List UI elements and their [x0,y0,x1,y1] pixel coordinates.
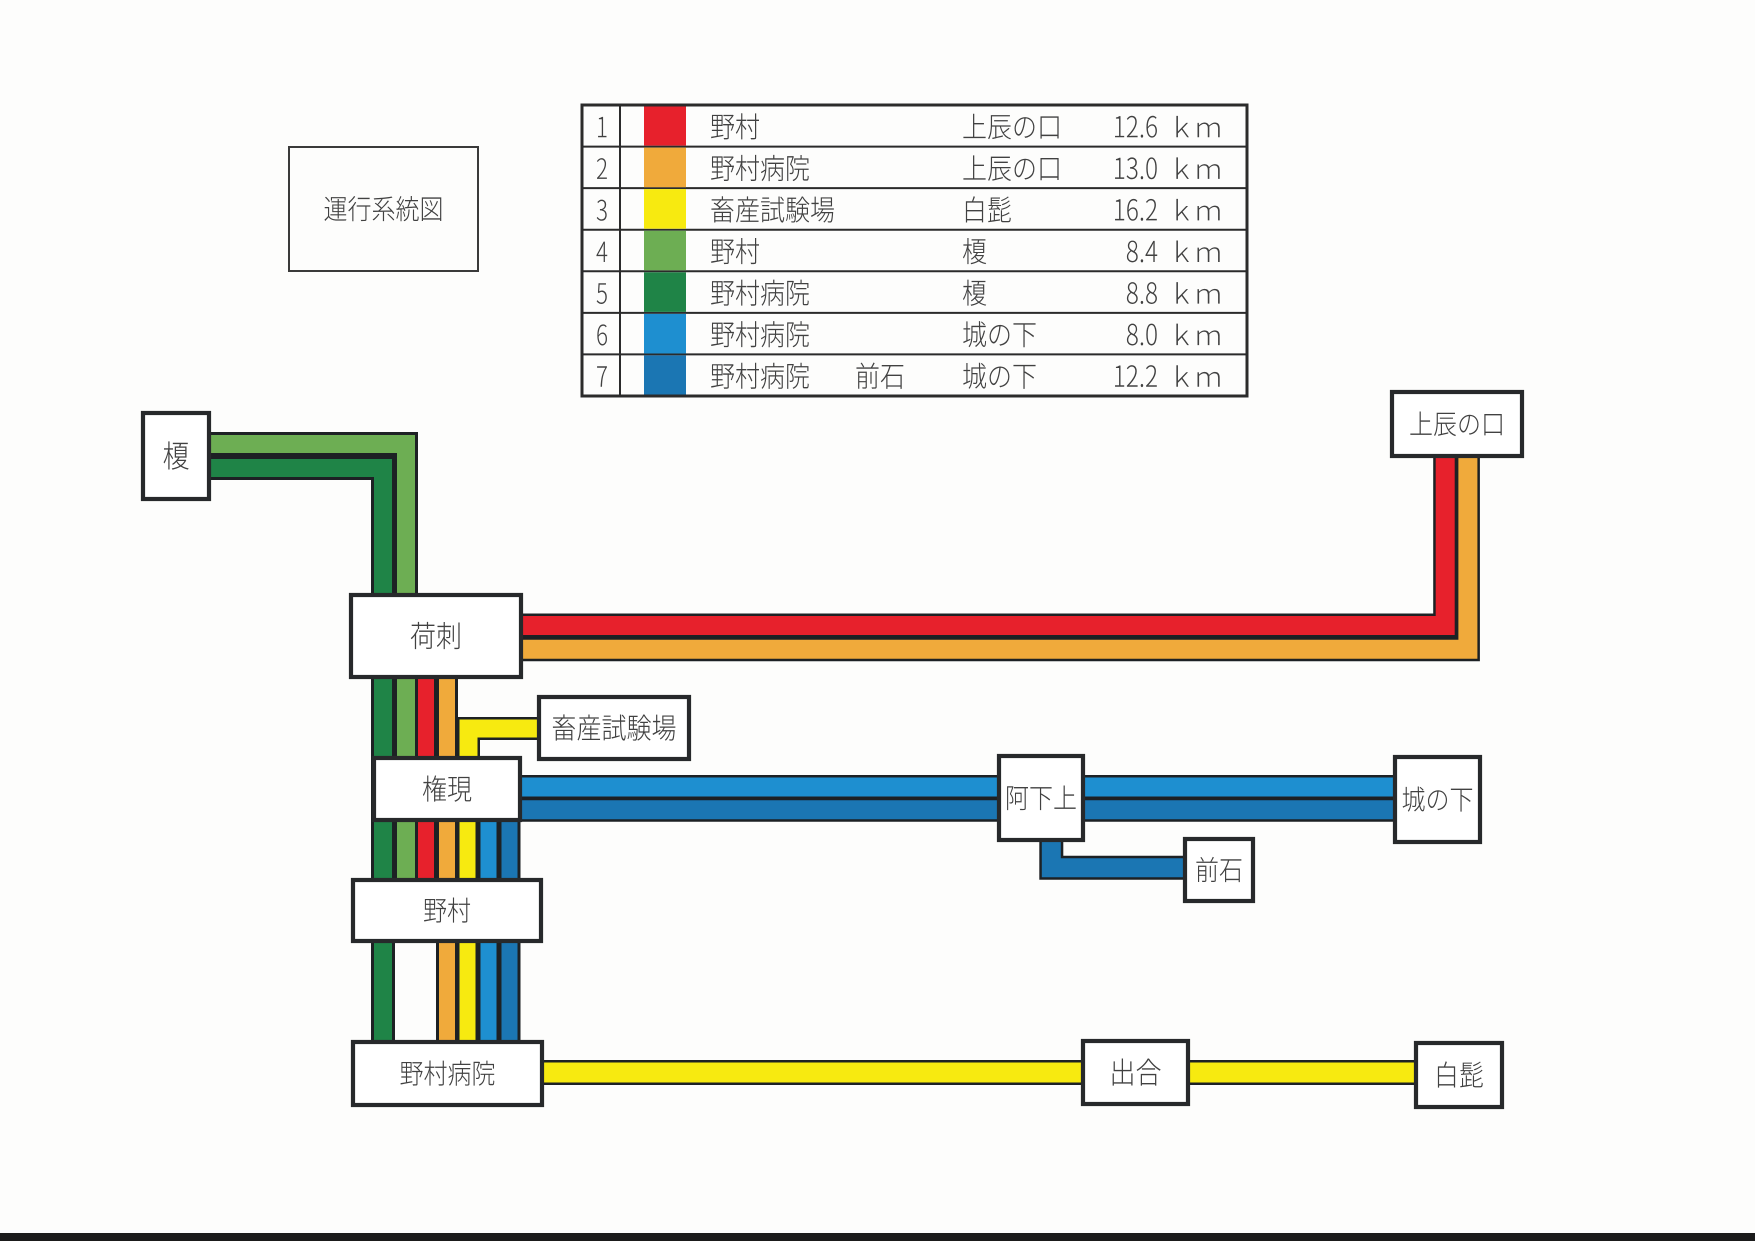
station box 野村病院 [353,1042,542,1105]
route 6 light-blue wire vertical 野村病院-権現 [481,795,497,1046]
station box 出合 [1083,1041,1188,1104]
route 6 light-blue wire 権現-阿下上-城の下 [517,778,1399,797]
legend row 4: colour swatch [644,231,686,271]
route 3 yellow wire 野村病院-出合-白髭 [540,1063,1420,1083]
legend row 3: texts [597,196,1220,222]
route 7 dark-blue wire vertical 野村病院-権現 [502,800,518,1046]
legend row 7: colour swatch [644,355,686,394]
legend row 1: colour swatch [644,107,686,146]
station box 畜産試験場 [539,697,689,759]
route 3 yellow wire 野村病院-出合-白髭 (outline) [540,1060,1420,1085]
legend row 6: colour swatch [644,314,686,354]
route 3 yellow wire vertical 権現-野村病院 (outline) [457,795,479,1046]
legend row 2: colour swatch [644,148,686,188]
route 1 red wire vertical 野村-荷刺 [418,660,434,884]
route 7 dark-blue wire 権現-阿下上-城の下 [517,800,1399,819]
legend row 7: texts [597,363,1220,389]
station box 榎 [143,413,209,499]
route 7 dark-blue wire vertical 野村病院-権現 (outline) [499,800,521,1046]
route 1 red wire 荷刺-上辰の口 [517,454,1445,626]
station box 前石 [1185,839,1253,901]
route 3 yellow wire 畜産試験場-権現 (outline) [469,729,541,791]
station box 上辰の口 [1392,392,1522,456]
station box 野村 [353,880,541,941]
route 6 light-blue wire 権現-阿下上-城の下 (outline) [517,775,1399,799]
route 1 red wire 荷刺-上辰の口 (outline) [517,454,1445,626]
station box 白髭 [1416,1043,1502,1107]
legend row 3: colour swatch [644,189,686,229]
route 2 orange wire vertical 野村病院-荷刺 (outline) [436,660,458,1046]
station box 阿下上 [999,756,1083,840]
title box 運行系統図 [289,147,478,271]
legend row 4: texts [596,238,1219,264]
route 3 yellow wire vertical 権現-野村病院 [460,795,476,1046]
route 4 light-green wire 榎-荷刺-野村 (outline) [205,444,406,884]
route 2 orange wire 荷刺-上辰の口 [517,454,1468,649]
legend row 5: colour swatch [644,272,686,312]
station box 荷刺 [351,595,521,677]
route 2 orange wire 荷刺-上辰の口 (outline) [517,454,1468,649]
legend table frame [582,105,1247,396]
legend row 2: texts [597,155,1220,181]
route 7 dark-blue wire 権現-阿下上-城の下 (outline) [517,798,1399,822]
route 3 yellow wire 畜産試験場-権現 [469,729,541,791]
route 6 light-blue wire vertical 野村病院-権現 (outline) [478,795,500,1046]
route 5 dark-green wire 榎-野村病院 (outline) [205,468,383,1046]
legend row 6: texts [597,321,1219,347]
route 4 light-green wire 榎-荷刺-野村 [205,444,406,884]
route 5 dark-green wire 榎-野村病院 [205,468,383,1046]
route 7 dark-blue spur wire 阿下上-前石 [1051,836,1189,868]
station box 城の下 [1395,757,1480,842]
legend row 5: texts [597,280,1220,306]
scanner black band at bottom edge [0,1233,1755,1241]
route 1 red wire vertical 野村-荷刺 (outline) [415,660,437,884]
station box 権現 [374,758,520,820]
legend row 1: texts [598,113,1220,139]
route 2 orange wire vertical 野村病院-荷刺 [439,660,455,1046]
route 7 dark-blue spur wire 阿下上-前石 (outline) [1051,836,1189,868]
